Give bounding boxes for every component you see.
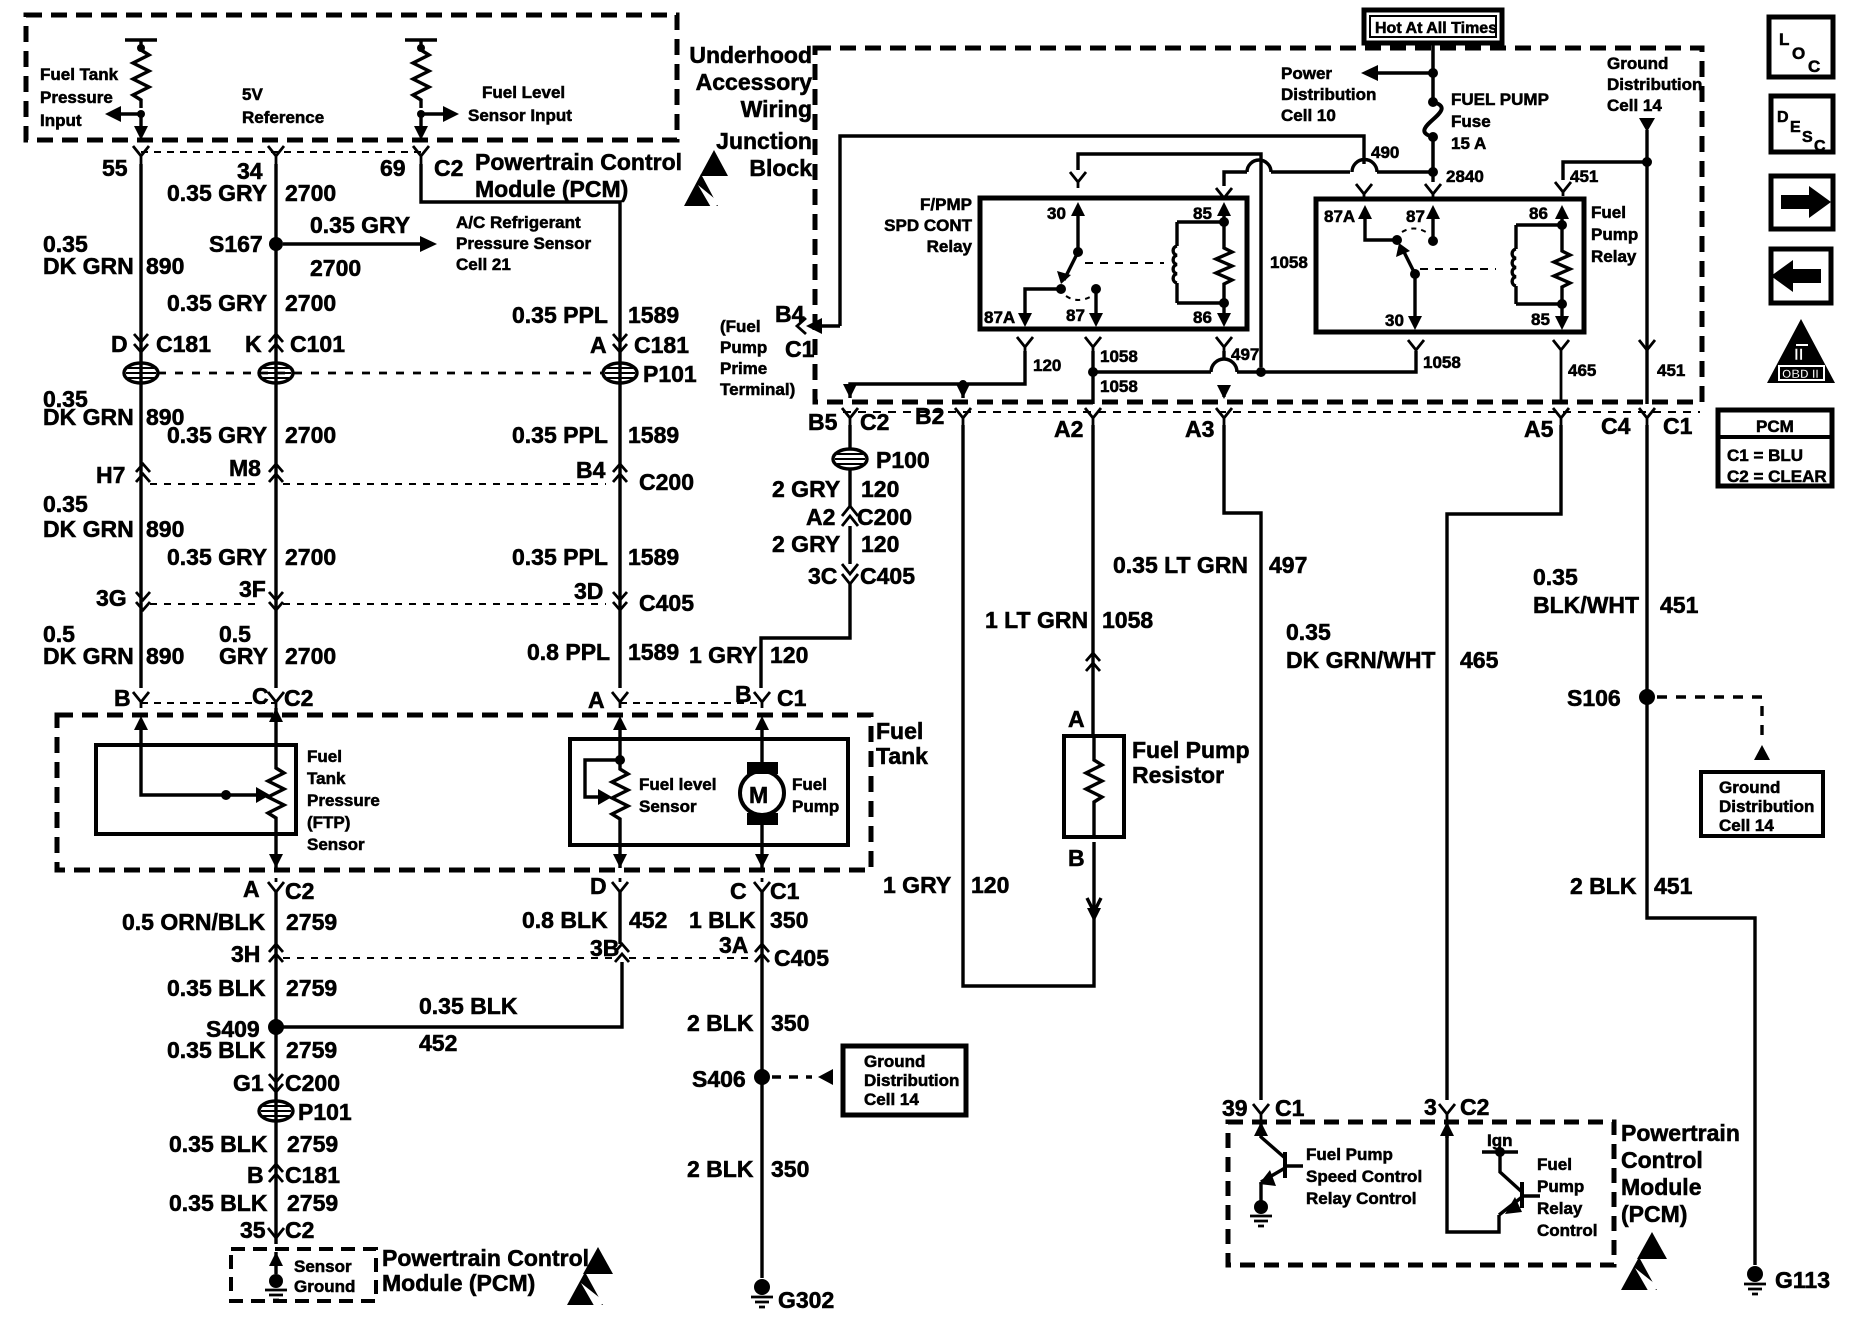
svg-text:A/C Refrigerant: A/C Refrigerant [456,213,581,232]
svg-text:Speed Control: Speed Control [1306,1167,1422,1186]
transistor ground (speed control) [1254,1200,1268,1214]
svg-text:G1: G1 [233,1070,264,1096]
FTP potentiometer resistor [268,745,284,834]
svg-text:39: 39 [1222,1095,1248,1121]
svg-text:L: L [1779,30,1789,49]
svg-text:DK GRN: DK GRN [43,643,134,669]
svg-text:0.35: 0.35 [43,491,88,517]
F/PMP relay 87A path [1025,289,1061,315]
svg-text:0.35 BLK: 0.35 BLK [169,1190,268,1216]
svg-text:3D: 3D [574,578,603,604]
svg-text:1 BLK: 1 BLK [689,907,756,933]
grommet at 1589 wire [603,363,637,383]
svg-text:2759: 2759 [287,1190,338,1216]
dashed link switch to coil (FP relay) [1420,268,1496,270]
svg-text:D: D [1777,109,1789,126]
svg-text:0.35 BLK: 0.35 BLK [167,975,266,1001]
svg-text:Resistor: Resistor [1132,762,1224,788]
svg-text:Fuel Pump: Fuel Pump [1132,737,1250,763]
wire level sensor D lead down [618,845,621,868]
grommet P100 [833,449,867,469]
wire 2759 A/C2 down to sensor ground [274,892,277,1244]
fuel pump resistor element [1086,736,1102,837]
wire 497 86 to A3 [1222,351,1225,397]
svg-text:0.35 GRY: 0.35 GRY [167,422,267,448]
svg-text:451: 451 [1657,361,1685,380]
wire 120 B2 down to resistor B elbow [963,425,1094,986]
wire resistor to pin 55 [139,114,142,128]
svg-text:350: 350 [771,1010,809,1036]
svg-text:2700: 2700 [285,643,336,669]
svg-text:35: 35 [240,1217,266,1243]
svg-text:A2: A2 [1054,416,1083,442]
svg-text:Distribution: Distribution [1719,797,1814,816]
svg-text:0.35 PPL: 0.35 PPL [512,544,608,570]
svg-text:451: 451 [1660,592,1699,618]
svg-text:C181: C181 [285,1162,340,1188]
svg-text:Cell 14: Cell 14 [864,1090,919,1109]
Fuel Pump Relay box [1316,199,1584,332]
svg-text:B: B [1068,845,1085,871]
svg-text:Pump: Pump [1591,225,1638,244]
ground distribution cell 14 box (center) [843,1046,966,1115]
svg-text:Fuel: Fuel [876,718,923,744]
svg-text:Module (PCM): Module (PCM) [382,1270,535,1296]
svg-text:451: 451 [1570,167,1598,186]
transistor fuel pump relay control [1445,1122,1448,1138]
svg-text:M: M [749,782,768,808]
svg-text:H7: H7 [96,462,125,488]
svg-text:0.35 PPL: 0.35 PPL [512,422,608,448]
svg-text:0.5 ORN/BLK: 0.5 ORN/BLK [122,909,266,935]
terminal Y F/PMP relay 85 feed [1216,188,1232,198]
svg-text:S406: S406 [692,1066,746,1092]
wire A2 to 3C [848,526,851,564]
svg-text:3H: 3H [231,941,260,967]
svg-text:Underhood: Underhood [689,42,812,68]
svg-text:C405: C405 [860,563,915,589]
svg-text:30: 30 [1385,311,1404,330]
svg-text:Junction: Junction [716,128,812,154]
PCM sensor ground box [231,1249,376,1301]
chevron connector on 1058 [1086,653,1100,671]
wire level sensor A lead [618,728,621,760]
hop over 1058 wire [1247,160,1271,172]
svg-text:C2 = CLEAR: C2 = CLEAR [1727,467,1827,486]
svg-text:GRY: GRY [219,643,268,669]
terminal Y F/PMP relay 30 [1070,172,1086,188]
svg-text:0.35: 0.35 [1286,619,1331,645]
svg-text:0.35 GRY: 0.35 GRY [167,544,267,570]
level sensor wiper loop [585,760,620,797]
svg-text:DK GRN: DK GRN [43,253,134,279]
svg-text:2 GRY: 2 GRY [772,476,840,502]
wire 1058 A2 to resistor A [1091,425,1094,736]
svg-text:BLK/WHT: BLK/WHT [1533,592,1639,618]
arrow into resistor elbow [1087,908,1101,922]
resistor fuel tank pressure input pull-up [125,40,157,48]
wire 497 A3 to PCM 39 [1224,425,1261,1100]
terminal Y 465 below FP relay 85 [1553,340,1569,404]
svg-text:890: 890 [146,516,184,542]
junction block dashed box [815,48,1702,402]
svg-text:C200: C200 [639,469,694,495]
svg-text:C181: C181 [156,331,211,357]
fuel level sensor and pump box [570,739,848,845]
svg-text:87: 87 [1066,306,1085,325]
svg-text:465: 465 [1460,647,1499,673]
svg-text:C: C [1808,57,1820,76]
svg-text:C2: C2 [285,1217,314,1243]
terminal Y fuel pump relay 87A feed [1356,184,1372,198]
F/PMP relay coil [1175,222,1178,303]
svg-text:Fuel: Fuel [1591,203,1626,222]
svg-text:2759: 2759 [286,1037,337,1063]
svg-text:2759: 2759 [286,975,337,1001]
svg-text:1058: 1058 [1102,607,1153,633]
svg-text:2700: 2700 [285,180,336,206]
svg-text:Terminal): Terminal) [720,380,795,399]
wire arrow to power distribution [1378,71,1433,74]
junction block bottom connector face [843,411,1700,413]
svg-text:C405: C405 [639,590,694,616]
terminal Y fuel pump relay 86 feed [1555,182,1571,196]
svg-text:Powertrain: Powertrain [1621,1120,1740,1146]
svg-text:69: 69 [380,155,406,181]
svg-text:85: 85 [1193,204,1212,223]
svg-text:Tank: Tank [307,769,346,788]
svg-text:890: 890 [146,643,184,669]
F/PMP SPD CONT relay box [980,198,1247,329]
grommet at 2700 wire [259,363,293,383]
svg-text:0.35 BLK: 0.35 BLK [167,1037,266,1063]
FTP sensor connector face [141,702,276,704]
fuel pump resistor box [1064,736,1124,837]
svg-text:II: II [1794,345,1803,364]
svg-text:B: B [114,685,131,711]
svg-text:3A: 3A [719,932,748,958]
svg-text:Relay: Relay [927,237,973,256]
ground G302 [754,1279,770,1295]
svg-text:F/PMP: F/PMP [920,195,972,214]
wire 452 D to 3B [618,892,621,944]
grommet P101 (lower) [259,1101,293,1121]
svg-text:0.35: 0.35 [1533,564,1578,590]
svg-text:0.35 PPL: 0.35 PPL [512,302,608,328]
svg-text:2700: 2700 [285,290,336,316]
wire resistor to pin 69 [419,114,422,128]
Fuel Tank dashed box [57,715,871,870]
terminal Y fuel pump relay 87 feed [1425,184,1441,198]
svg-text:(Fuel: (Fuel [720,317,761,336]
dashed reference to ground distribution [772,1075,812,1078]
PCM bottom-right dashed box [1228,1122,1614,1265]
FP relay pin 30 [1413,274,1416,318]
svg-text:DK GRN/WHT: DK GRN/WHT [1286,647,1435,673]
svg-text:OBD II: OBD II [1782,367,1819,381]
wire 890 pin55 to FTP B [139,164,142,688]
svg-text:D: D [590,873,607,899]
wire 465 A5 to PCM 3 [1447,425,1561,1100]
PCM connector legend box [1718,410,1832,486]
svg-text:Input: Input [40,111,82,130]
svg-text:Distribution: Distribution [1281,85,1376,104]
svg-text:451: 451 [1654,873,1693,899]
svg-text:P101: P101 [643,361,697,387]
level sensor resistor [612,760,628,845]
icon arrow right box [1771,176,1833,229]
wire arrow left to Fuel Tank Pressure Input [121,112,141,115]
svg-text:Fuel level: Fuel level [639,775,716,794]
svg-text:Fuel: Fuel [307,747,342,766]
svg-text:452: 452 [629,907,667,933]
svg-text:B4: B4 [775,301,805,327]
svg-text:D: D [111,331,128,357]
svg-text:Distribution: Distribution [864,1071,959,1090]
svg-text:C2: C2 [285,878,314,904]
wire hot feed into block [1431,43,1435,100]
svg-text:Accessory: Accessory [696,69,813,95]
node power distribution tap [1428,68,1438,78]
svg-text:Pressure Sensor: Pressure Sensor [456,234,592,253]
svg-text:120: 120 [861,476,899,502]
svg-text:1 LT GRN: 1 LT GRN [985,607,1088,633]
svg-text:Relay Control: Relay Control [1306,1189,1417,1208]
wire 2700 pin34 to FTP C [274,164,277,688]
FP relay coil [1514,225,1517,304]
FP relay coil rails [1516,225,1562,304]
svg-text:C1: C1 [777,685,807,711]
terminal Y 497 below F/PMP 86 [1216,337,1232,351]
svg-text:2759: 2759 [286,909,337,935]
svg-text:85: 85 [1531,310,1550,329]
svg-text:0.8 PPL: 0.8 PPL [527,639,610,665]
svg-text:Fuel Level: Fuel Level [482,83,565,102]
FP relay switch arm [1403,250,1415,274]
svg-text:2840: 2840 [1446,167,1484,186]
svg-text:0.35 BLK: 0.35 BLK [419,993,518,1019]
ESD symbol bottom-right [1637,1232,1667,1259]
svg-text:Pump: Pump [1537,1177,1584,1196]
svg-text:3C: 3C [808,563,837,589]
resistor fuel level sensor input pull-up [405,40,437,48]
svg-text:Wiring: Wiring [741,96,812,122]
svg-text:Cell 14: Cell 14 [1607,96,1662,115]
svg-text:FUEL PUMP: FUEL PUMP [1451,90,1549,109]
sensor ground symbol [274,1252,277,1274]
svg-text:120: 120 [861,531,899,557]
svg-text:C4: C4 [1601,413,1631,439]
svg-text:B2: B2 [915,403,944,429]
svg-text:B: B [247,1162,264,1188]
terminal Y 451 inline [1639,340,1655,350]
connector C2 face (thin dashed) [141,151,421,153]
svg-text:E: E [1790,119,1801,136]
svg-text:Powertrain Control: Powertrain Control [382,1245,589,1271]
svg-text:Ground: Ground [1607,54,1668,73]
arrow from ground distribution [1639,118,1655,132]
wire 451 C4 to corner [1647,425,1755,1265]
svg-text:C1 = BLU: C1 = BLU [1727,446,1803,465]
wire 452 3B down to S409 branch [283,962,622,1027]
svg-text:1058: 1058 [1100,347,1138,366]
wire pump C lead down [760,824,763,868]
svg-text:Relay: Relay [1591,247,1637,266]
svg-text:350: 350 [770,907,808,933]
svg-text:Powertrain Control: Powertrain Control [475,149,682,175]
svg-text:1589: 1589 [628,302,679,328]
svg-text:490: 490 [1371,143,1399,162]
svg-text:C1: C1 [1663,413,1693,439]
svg-text:Sensor: Sensor [639,797,697,816]
svg-text:2 GRY: 2 GRY [772,531,840,557]
F/PMP relay switch arm [1064,252,1078,280]
dashed link 87A-87 (FP relay) [1402,228,1429,234]
svg-text:3G: 3G [96,585,127,611]
svg-text:G302: G302 [778,1287,834,1313]
wire 120 to B5 B2 [850,351,1025,398]
svg-text:Pressure: Pressure [40,88,113,107]
svg-text:Fuel: Fuel [1537,1155,1572,1174]
svg-text:S: S [1802,129,1813,146]
grommet P101 row dashed [158,372,602,375]
svg-text:87: 87 [1406,207,1425,226]
svg-text:Block: Block [749,155,812,181]
wire P100 to A2 C200 [848,469,851,506]
svg-text:86: 86 [1529,204,1548,223]
svg-text:A: A [588,687,605,713]
svg-text:C101: C101 [290,331,345,357]
dashed reference from S106 [1657,697,1762,740]
svg-text:C200: C200 [857,504,912,530]
svg-text:890: 890 [146,253,184,279]
svg-text:Relay: Relay [1537,1199,1583,1218]
svg-text:1589: 1589 [628,422,679,448]
wire 451 branch to fuel pump relay 86 [1563,162,1647,180]
svg-text:55: 55 [102,155,128,181]
svg-text:G113: G113 [1775,1267,1830,1293]
svg-text:0.35 GRY: 0.35 GRY [167,290,267,316]
svg-text:C: C [1814,138,1826,155]
F/PMP relay coil rails [1177,222,1224,303]
svg-text:A2: A2 [806,504,835,530]
svg-text:Cell 14: Cell 14 [1719,816,1774,835]
wire S167 to A/C refrigerant sensor [283,242,420,245]
svg-text:3: 3 [1424,1094,1437,1120]
svg-text:Ground: Ground [294,1277,355,1296]
svg-text:2700: 2700 [310,255,361,281]
transistor fuel pump speed control [1259,1122,1262,1138]
svg-text:Tank: Tank [876,743,928,769]
svg-text:0.8 BLK: 0.8 BLK [522,907,608,933]
wire FTP B lead [141,728,258,795]
svg-text:Module: Module [1621,1174,1702,1200]
svg-text:2 BLK: 2 BLK [687,1156,754,1182]
wire 1058 87 to A2 [1091,351,1094,404]
svg-text:(FTP): (FTP) [307,813,350,832]
svg-text:120: 120 [971,872,1009,898]
svg-text:Cell 21: Cell 21 [456,255,511,274]
svg-text:1589: 1589 [628,639,679,665]
svg-text:2759: 2759 [287,1131,338,1157]
svg-text:Reference: Reference [242,108,324,127]
svg-text:M8: M8 [229,455,261,481]
fuel pump motor [760,728,763,765]
svg-text:C1: C1 [770,878,800,904]
svg-text:Sensor: Sensor [294,1257,352,1276]
wire 1058 F/PMP 30 jog [1078,154,1261,367]
svg-text:5V: 5V [242,85,263,104]
dashed link switch to coil [1085,262,1164,264]
svg-text:1058: 1058 [1100,377,1138,396]
fuse FUEL PUMP 15A [1428,97,1438,107]
FP relay resistor [1554,225,1570,304]
svg-text:PCM: PCM [1756,417,1794,436]
svg-text:C: C [252,683,269,709]
svg-text:30: 30 [1047,204,1066,223]
svg-text:Pressure: Pressure [307,791,380,810]
svg-text:465: 465 [1568,361,1596,380]
svg-text:Sensor Input: Sensor Input [468,106,572,125]
svg-text:1 GRY: 1 GRY [689,642,757,668]
svg-text:C: C [730,878,747,904]
svg-text:C2: C2 [1460,1094,1489,1120]
svg-text:O: O [1792,44,1805,63]
hop wire F over 497 [1211,359,1237,372]
Hot At All Times box [1364,10,1502,43]
svg-text:P100: P100 [876,447,930,473]
svg-text:A: A [243,876,260,902]
svg-text:C405: C405 [774,945,829,971]
svg-text:2 BLK: 2 BLK [687,1010,754,1036]
wire F 1058 bus [1093,351,1416,372]
svg-text:1058: 1058 [1270,253,1308,272]
svg-text:A5: A5 [1524,416,1554,442]
icon OBD II triangle [1767,319,1835,383]
svg-text:DK GRN: DK GRN [43,404,134,430]
svg-text:Prime: Prime [720,359,767,378]
ground distribution cell 14 box (right) [1701,772,1823,836]
terminal Y 1058 below FP relay 30 [1408,340,1424,351]
svg-text:S167: S167 [209,231,263,257]
wire 350 pump C down to S406 [760,892,763,1278]
svg-text:B4: B4 [576,457,606,483]
svg-text:497: 497 [1231,345,1259,364]
PCM top module box [26,15,677,140]
svg-text:C1: C1 [785,336,815,362]
icon arrow left box [1771,249,1831,303]
svg-text:Control: Control [1537,1221,1597,1240]
terminal Y 120 below F/PMP 87A [1017,337,1033,351]
wire B5 to P100 [848,425,851,449]
svg-text:0.35 GRY: 0.35 GRY [167,180,267,206]
svg-text:87A: 87A [984,308,1015,327]
icon DESC box [1771,96,1833,152]
svg-text:C2: C2 [860,409,889,435]
svg-text:B5: B5 [808,409,838,435]
hop over 490 wire [1352,159,1377,172]
ESD symbol bottom-left [583,1247,613,1274]
terminal B4 prime chevron [797,318,806,334]
svg-text:86: 86 [1193,308,1212,327]
svg-text:Power: Power [1281,64,1332,83]
terminal Y 1058 below F/PMP 87 [1085,337,1101,351]
svg-text:Pump: Pump [792,797,839,816]
svg-text:2700: 2700 [285,544,336,570]
wire 490 B4 prime terminal to wire E [840,136,1364,326]
connector face dashed 3H-3B-3A [283,957,615,959]
svg-text:C1: C1 [1275,1095,1305,1121]
